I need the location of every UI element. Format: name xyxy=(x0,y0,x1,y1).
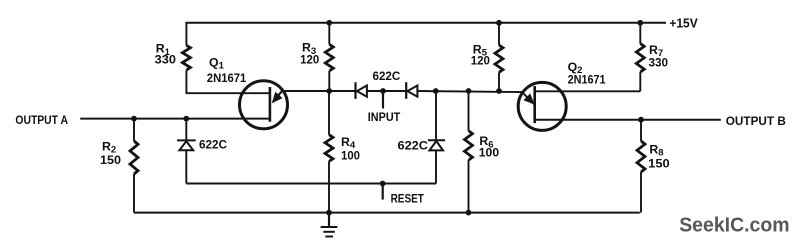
resistor R5 xyxy=(495,23,503,91)
junction: R8 at OUTPUT B xyxy=(638,117,644,123)
transistor Q1 2N1671 UJT xyxy=(240,81,288,129)
wire: +15V top rail xyxy=(185,22,666,24)
svg-text:120: 120 xyxy=(300,53,319,67)
junction: R6 at bottom rail xyxy=(466,210,472,216)
junction: R4/ground at bottom rail xyxy=(326,210,332,216)
svg-text:622C: 622C xyxy=(373,69,401,83)
wire: diode D1 to D2 (input node) xyxy=(367,90,406,92)
resistor R1 xyxy=(182,23,190,93)
svg-text:OUTPUT A: OUTPUT A xyxy=(15,115,68,127)
diode D2 622C (right input diode) xyxy=(406,82,417,99)
junction: R3/R4 emitter node Q1 xyxy=(326,88,332,94)
svg-text:RESET: RESET xyxy=(391,191,425,205)
resistor R7 xyxy=(636,23,644,92)
junction: R6 top node xyxy=(466,88,472,94)
wire: Q2 base-two (B2) to R7 xyxy=(535,90,641,92)
diode D1 622C (left input diode) xyxy=(356,82,367,99)
diode V1 622C (left reset diode) xyxy=(177,119,196,184)
ground xyxy=(321,213,338,237)
svg-text:100: 100 xyxy=(479,146,499,160)
wire: OUTPUT A line to Q1 base-one (B1) xyxy=(80,118,270,120)
transistor Q2 2N1671 UJT xyxy=(518,82,566,130)
svg-text:330: 330 xyxy=(649,55,669,69)
svg-text:SeekIC.com: SeekIC.com xyxy=(679,215,789,237)
wire: Q2 base-one (B1) OUTPUT B line xyxy=(535,119,721,121)
junction: V1 at OUTPUT A xyxy=(183,116,189,122)
junction: R5 at +15V rail xyxy=(496,20,502,26)
wire: Q1 emitter to R3/R4 node xyxy=(282,90,355,92)
junction: R5 emitter node Q2 xyxy=(496,88,502,94)
junction: R3 at +15V rail xyxy=(326,20,332,26)
resistor R2 xyxy=(130,119,138,213)
resistor R3 xyxy=(325,23,333,91)
diode V2 622C (right reset diode) xyxy=(428,91,445,184)
svg-text:622C: 622C xyxy=(398,139,429,153)
wire: ground bottom rail xyxy=(134,212,640,214)
svg-text:OUTPUT B: OUTPUT B xyxy=(726,116,786,128)
svg-text:100: 100 xyxy=(341,148,360,162)
junction: V2 top node xyxy=(433,88,439,94)
wire: R1 to Q1 base-two (B2) xyxy=(186,92,270,94)
svg-text:622C: 622C xyxy=(199,138,227,152)
junction: INPUT node xyxy=(380,88,386,94)
wire: INPUT stub xyxy=(382,91,384,109)
svg-text:INPUT: INPUT xyxy=(368,110,401,124)
resistor R8 xyxy=(637,120,645,213)
wire: RESET stub xyxy=(382,184,384,200)
resistor R6 xyxy=(465,91,473,213)
junction: R7 at +15V rail xyxy=(637,20,643,26)
svg-text:2N1671: 2N1671 xyxy=(568,73,606,87)
resistor R4 xyxy=(325,91,333,213)
junction: R2 at OUTPUT A xyxy=(131,116,137,122)
svg-text:2N1671: 2N1671 xyxy=(207,71,247,85)
svg-text:120: 120 xyxy=(471,54,490,68)
wire: D2 to Q2 emitter node xyxy=(417,91,534,104)
svg-text:330: 330 xyxy=(155,52,176,66)
svg-text:150: 150 xyxy=(648,156,670,170)
junction: RESET node xyxy=(380,181,386,187)
wire: RESET rail xyxy=(186,183,436,185)
svg-text:+15V: +15V xyxy=(669,16,698,31)
svg-text:150: 150 xyxy=(100,153,121,167)
svg-text:Q1: Q1 xyxy=(209,56,225,72)
